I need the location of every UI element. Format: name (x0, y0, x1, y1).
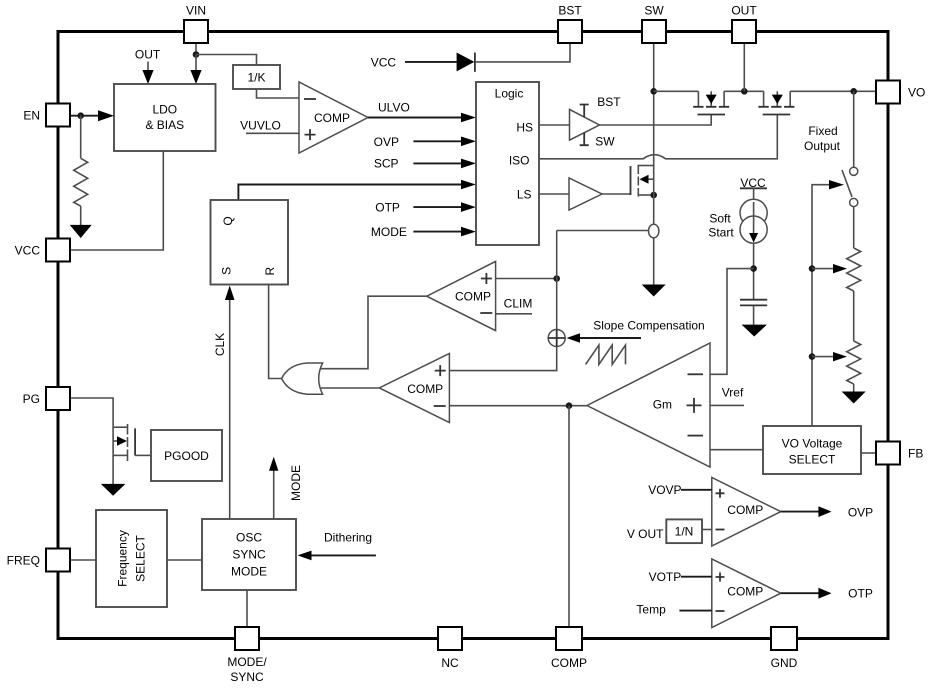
node VIN junction (193, 51, 200, 58)
svg-text:SYNC: SYNC (230, 670, 264, 684)
transistor Q2 output isolation (764, 91, 791, 106)
svg-text:OUT: OUT (731, 4, 757, 18)
svg-text:MODE: MODE (231, 564, 267, 578)
wire 1/K to UVLO comparator minus (257, 89, 300, 98)
wire select line (812, 185, 830, 426)
wire soft start node (753, 243, 755, 300)
op-amp OVP COMP (712, 477, 781, 546)
current sense element (649, 224, 659, 238)
svg-text:VCC: VCC (15, 243, 41, 257)
svg-text:1/K: 1/K (247, 70, 265, 84)
svg-text:VO: VO (908, 85, 925, 99)
op-amp CLIM COMP (427, 261, 496, 330)
waveform sawtooth (586, 345, 626, 364)
svg-text:SW: SW (595, 134, 615, 148)
svg-text:BST: BST (597, 95, 621, 109)
svg-text:LS: LS (517, 187, 532, 201)
ground Q4 source (101, 484, 126, 496)
block 1/K divider (233, 65, 280, 89)
block OSC SYNC MODE (202, 519, 296, 590)
wire VIN pin to junction (195, 43, 197, 55)
op-amp Gm error amplifier (587, 343, 710, 467)
svg-text:R: R (263, 267, 277, 276)
ground current sense (642, 285, 666, 297)
wire PWM comparator output to OR input (321, 387, 379, 389)
node VO junction (850, 88, 857, 95)
svg-text:GND: GND (771, 656, 798, 670)
svg-text:Logic: Logic (495, 86, 524, 100)
op-amp OTP COMP (712, 559, 781, 628)
transistor Q1 high-side (698, 91, 724, 106)
wire Q2 to VO (790, 90, 876, 92)
wire Logic HS output (539, 124, 570, 126)
buffer LS driver (569, 178, 602, 210)
block PGOOD (151, 430, 222, 481)
svg-text:OSC: OSC (236, 530, 262, 544)
buffer HS driver (570, 109, 600, 140)
node SW rail of HS driver (580, 133, 589, 146)
svg-text:Output: Output (804, 139, 841, 153)
pin VO (876, 81, 900, 104)
pin FREQ (46, 549, 70, 572)
wire Logic LS output (539, 193, 569, 195)
wire CLIM plus input (496, 278, 557, 280)
wire OSC to MODE/SYNC pin (246, 590, 248, 627)
svg-text:Q: Q (221, 216, 235, 225)
resistor R2 feedback bottom (847, 341, 861, 384)
pin PG (46, 387, 70, 410)
node OUT rail junction (741, 88, 748, 95)
wire OVP output (781, 511, 820, 513)
block Logic (476, 82, 539, 245)
wire LS driver to Q3 gate (602, 193, 631, 195)
wire HS driver to Q1 gate (600, 115, 712, 126)
node COMP junction (566, 402, 573, 409)
svg-text:Temp: Temp (636, 602, 666, 616)
svg-text:MODE: MODE (371, 225, 407, 239)
pin MODE/SYNC (235, 627, 259, 650)
svg-text:COMP: COMP (314, 111, 350, 125)
wire Logic ISO output to Q2 gate (539, 115, 777, 159)
resistor R1 feedback top (847, 248, 861, 291)
svg-text:Frequency: Frequency (115, 530, 129, 587)
svg-text:ULVO: ULVO (378, 100, 410, 114)
svg-text:S: S (220, 267, 234, 275)
svg-text:NC: NC (441, 656, 459, 670)
wire SW net vertical (653, 43, 655, 225)
ground divider (853, 384, 855, 392)
wire Vref to Gm plus (710, 404, 744, 406)
wire soft start to Gm minus (710, 269, 754, 375)
wire sense line vertical (556, 231, 558, 330)
svg-text:COMP: COMP (407, 382, 443, 396)
svg-text:Fixed: Fixed (808, 124, 837, 138)
wire PWM plus input from summing node (449, 347, 556, 371)
wire OTP output (781, 592, 820, 594)
wire COMP pin (568, 406, 570, 627)
wire VO Voltage SELECT to FB pin (861, 452, 876, 454)
wire CLK to latch S (229, 299, 231, 519)
block VO Voltage SELECT (763, 426, 861, 474)
summing junction slope compensation (548, 330, 565, 347)
pin SW (642, 20, 666, 43)
IC boundary (58, 32, 888, 639)
wire latch R from OR gate (269, 285, 282, 379)
wire SW rail to Q1 (654, 90, 699, 92)
svg-text:PGOOD: PGOOD (164, 449, 209, 463)
pin VIN (184, 20, 208, 43)
block Frequency SELECT (96, 510, 167, 607)
wire Q4 gate to PGOOD (135, 454, 151, 456)
svg-text:Vref: Vref (722, 385, 744, 399)
transistor Q3 low-side (630, 166, 632, 195)
wire tap R2 (809, 353, 816, 360)
ground soft start (742, 325, 767, 337)
diode bootstrap (457, 53, 475, 72)
svg-text:V OUT: V OUT (627, 527, 664, 541)
ground EN resistor (70, 225, 92, 238)
svg-text:VUVLO: VUVLO (240, 118, 281, 132)
svg-text:Dithering: Dithering (324, 531, 372, 545)
node EN junction (77, 112, 84, 119)
svg-text:VIN: VIN (186, 4, 206, 18)
svg-text:Slope Compensation: Slope Compensation (593, 319, 704, 333)
wire Frequency SELECT to OSC (167, 559, 202, 561)
current source soft start (753, 188, 755, 199)
switch fixed output select (850, 167, 858, 175)
svg-text:HS: HS (516, 120, 533, 134)
wire diode to BST pin (475, 43, 570, 62)
svg-text:VOTP: VOTP (649, 570, 682, 584)
wire switch to R1 (853, 207, 855, 248)
pin GND (771, 627, 797, 650)
node SW rail junction (650, 88, 657, 95)
wire OUT pin down (743, 43, 745, 91)
gate OR reset (282, 363, 323, 394)
svg-text:COMP: COMP (551, 656, 587, 670)
svg-text:OVP: OVP (374, 135, 399, 149)
pin NC (438, 627, 462, 650)
resistor EN pulldown (80, 116, 82, 159)
svg-text:LDO: LDO (152, 102, 177, 116)
svg-text:MODE/: MODE/ (227, 655, 267, 669)
transistor Q4 PGOOD pulldown (113, 426, 127, 428)
wire current sense to CLIM node (557, 230, 649, 232)
svg-text:MODE: MODE (289, 465, 303, 501)
wire PG pin to Q4 (69, 398, 113, 485)
pin VCC (46, 239, 70, 262)
svg-text:OUT: OUT (135, 48, 161, 62)
wire Gm minus to VO Voltage SELECT (710, 449, 763, 451)
svg-text:FREQ: FREQ (7, 553, 40, 567)
svg-text:Start: Start (708, 226, 734, 240)
svg-text:COMP: COMP (727, 503, 763, 517)
svg-text:EN: EN (23, 108, 40, 122)
svg-text:VO Voltage: VO Voltage (782, 436, 843, 450)
svg-text:Soft: Soft (709, 212, 731, 226)
pin EN (46, 104, 70, 127)
pin FB (876, 442, 900, 465)
wire sense to ground (653, 238, 655, 285)
svg-text:& BIAS: & BIAS (145, 118, 184, 132)
svg-text:VOVP: VOVP (648, 483, 681, 497)
wire latch Q to Logic (238, 185, 462, 201)
svg-text:FB: FB (908, 446, 923, 460)
svg-text:CLIM: CLIM (504, 296, 533, 310)
wire tap R1 (809, 265, 816, 272)
wire EN pin to LDO (70, 115, 99, 117)
svg-text:VCC: VCC (371, 56, 397, 70)
block LDO &amp; BIAS (114, 84, 216, 151)
pin COMP (556, 627, 582, 650)
svg-text:COMP: COMP (455, 290, 491, 304)
svg-text:SCP: SCP (374, 157, 399, 171)
svg-text:SYNC: SYNC (232, 547, 266, 561)
svg-text:CLK: CLK (213, 333, 227, 356)
pin BST (558, 20, 582, 43)
wire VCC pin to LDO (70, 151, 163, 250)
node CLIM junction (553, 275, 560, 282)
wire MODE output arrow (273, 470, 275, 519)
node Q3 source junction (650, 192, 657, 199)
svg-text:COMP: COMP (727, 585, 763, 599)
svg-text:1/N: 1/N (675, 524, 694, 538)
wire R1 to R2 (853, 291, 855, 341)
node soft start junction (750, 265, 757, 272)
wire VO to switch (853, 91, 855, 167)
block S-R latch (211, 200, 289, 285)
svg-text:Gm: Gm (653, 397, 672, 411)
svg-text:OVP: OVP (848, 505, 873, 519)
svg-text:SW: SW (644, 4, 664, 18)
svg-text:PG: PG (23, 392, 40, 406)
op-amp UVLO COMP (299, 82, 368, 153)
wire Gm output to PWM minus (449, 405, 587, 407)
wire VIN junction to LDO (195, 55, 197, 72)
wire Q1 to OUT node (724, 90, 764, 92)
svg-text:OTP: OTP (848, 587, 873, 601)
svg-text:SELECT: SELECT (133, 534, 147, 581)
capacitor soft start (740, 300, 767, 306)
wire VIN junction to 1/K (196, 55, 257, 66)
node BST rail of HS driver (580, 105, 589, 118)
svg-text:SELECT: SELECT (789, 452, 836, 466)
pin OUT (732, 20, 756, 43)
svg-text:OTP: OTP (375, 200, 400, 214)
svg-text:BST: BST (558, 4, 582, 18)
wire slope compensation input (567, 333, 581, 343)
svg-text:ISO: ISO (509, 153, 530, 167)
op-amp PWM COMP (379, 353, 449, 422)
wire CLIM comparator output to OR input (321, 296, 427, 369)
wire FREQ pin to Frequency SELECT (70, 559, 96, 561)
